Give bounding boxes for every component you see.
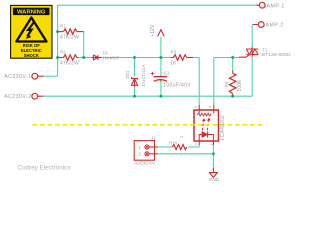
- svg-text:AUDIO-IN: AUDIO-IN: [134, 160, 155, 165]
- svg-text:R2: R2: [60, 49, 66, 54]
- svg-text:R4: R4: [224, 81, 229, 87]
- svg-text:100uF/40V: 100uF/40V: [163, 82, 191, 88]
- svg-text:1K: 1K: [170, 60, 177, 66]
- svg-text:47K/2W: 47K/2W: [60, 61, 79, 67]
- svg-text:+12V: +12V: [150, 24, 156, 37]
- svg-text:D1: D1: [103, 51, 109, 56]
- svg-text:SHOCK: SHOCK: [24, 53, 39, 58]
- svg-text:1N4007: 1N4007: [102, 56, 120, 62]
- svg-text:GND: GND: [209, 177, 220, 183]
- svg-text:J1: J1: [151, 135, 156, 140]
- svg-text:LAMP-1: LAMP-1: [263, 3, 284, 9]
- svg-text:Codrey Electronics: Codrey Electronics: [18, 165, 71, 172]
- svg-text:R10: R10: [169, 140, 178, 145]
- svg-text:WARNING: WARNING: [17, 10, 46, 16]
- svg-text:BT136-600D: BT136-600D: [262, 52, 291, 58]
- svg-text:AC230V-1: AC230V-1: [4, 74, 31, 80]
- svg-text:1: 1: [138, 145, 141, 150]
- svg-text:1: 1: [210, 143, 214, 145]
- svg-text:R1: R1: [60, 23, 66, 28]
- svg-text:R3: R3: [171, 50, 177, 55]
- svg-text:100K: 100K: [237, 79, 243, 92]
- svg-text:ZD1: ZD1: [125, 70, 130, 79]
- svg-text:LCA40202: LCA40202: [220, 115, 226, 140]
- svg-text:4: 4: [208, 106, 212, 108]
- svg-text:LAMP-2: LAMP-2: [262, 23, 283, 29]
- svg-text:3: 3: [194, 106, 198, 108]
- svg-text:C1: C1: [164, 70, 170, 75]
- svg-text:47K/2W: 47K/2W: [60, 35, 79, 41]
- svg-text:2: 2: [138, 152, 141, 157]
- svg-text:T1: T1: [262, 47, 268, 52]
- svg-text:5: 5: [180, 136, 184, 138]
- svg-text:2: 2: [194, 143, 198, 145]
- svg-text:AC230V-2: AC230V-2: [4, 94, 31, 100]
- svg-text:1N4742A: 1N4742A: [141, 64, 147, 87]
